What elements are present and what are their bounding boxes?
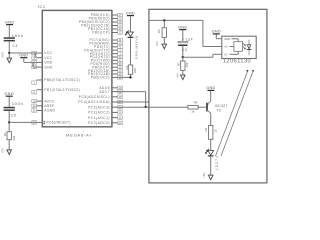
IC1 pin 30 PD0(RXD): [90, 62, 122, 66]
IC1 pin 25 PC2(ADC2): [88, 111, 122, 115]
C4 value label 100n: [12, 33, 24, 38]
receiver photodiode symbol: [243, 40, 251, 55]
junction A0 pull-up: [163, 19, 165, 21]
svg-text:R2: R2: [125, 65, 129, 69]
wire R1 to +5V: [8, 140, 10, 151]
supply VCC arrow: [0, 51, 11, 63]
R4 value label 1k: [191, 110, 195, 114]
ground flag GND (receiver): [212, 30, 221, 35]
wire C5 to reset node: [8, 111, 10, 123]
svg-text:LD274: LD274: [215, 155, 219, 170]
svg-text:VCC: VCC: [44, 51, 52, 55]
svg-text:C4: C4: [12, 44, 17, 48]
IC1 pin 29 PC6(/RESET): [32, 121, 71, 125]
junction A1 node: [182, 56, 184, 58]
svg-text:R6: R6: [157, 29, 161, 33]
svg-text:100: 100: [185, 62, 189, 67]
light beam arrow 2: [221, 70, 254, 156]
svg-text:PB3(OC2): PB3(OC2): [91, 76, 110, 80]
wire IR LED to +5V: [210, 157, 212, 176]
wire GND to green LED: [130, 16, 132, 32]
R5 designator label: [204, 127, 208, 131]
svg-text:VCC: VCC: [44, 56, 52, 60]
wire VCC node to IC1 VCC pin: [9, 52, 36, 54]
svg-text:R7: R7: [177, 62, 181, 66]
supply +5V arrow (R1): [0, 148, 11, 155]
IC1 pin 13 PB1(OC1A): [88, 27, 122, 31]
ground flag GND (IC supply pins): [19, 53, 28, 58]
wire GND to C3: [182, 30, 184, 41]
resistor R7 body: [181, 61, 185, 70]
IC1 pin 14 PB2(SS/OC1B): [81, 24, 122, 28]
IC1 pin 5 GND: [32, 65, 53, 69]
R7 designator label: [177, 62, 181, 66]
receiver value label 12061130: [223, 59, 251, 65]
IC1 pin 15 PB3(OC2): [91, 76, 123, 80]
receiver pin label A0: [224, 45, 228, 49]
svg-text:AVCC: AVCC: [44, 99, 55, 103]
R2 designator label: [125, 65, 129, 69]
IC1 pin 1 PD3(INT1): [90, 52, 123, 56]
svg-text:PC4(ADC4/SDA): PC4(ADC4/SDA): [78, 100, 110, 104]
wire junction to R6: [163, 20, 165, 27]
IC1 pin 20 AREF: [32, 104, 55, 108]
svg-text:GRN_M8EVB: GRN_M8EVB: [134, 36, 138, 59]
svg-text:PC1(ADC1): PC1(ADC1): [88, 116, 110, 120]
IC1 pin 32 PD2(INT0): [90, 55, 123, 59]
transistor T3 base bar: [206, 103, 208, 112]
svg-text:GND: GND: [206, 86, 215, 90]
svg-text:R4: R4: [194, 100, 198, 104]
IC1 pin 12 PB0(ICP): [92, 31, 122, 35]
svg-text:GND: GND: [44, 61, 53, 65]
svg-text:R5: R5: [204, 127, 208, 131]
junction ADC7-base net: [144, 106, 146, 108]
IC1 pin 23 PC0(ADC0): [88, 121, 122, 125]
resistor R2 body: [128, 65, 132, 74]
svg-text:+ 1µF: + 1µF: [182, 37, 193, 41]
ground flag GND (green LED): [126, 11, 135, 16]
svg-text:A1: A1: [224, 52, 228, 56]
T3 collector lead: [206, 109, 211, 125]
resistor R4 body: [188, 105, 198, 109]
wire GND to receiver GND pin: [216, 35, 222, 39]
wire reset node to IC1 PC6(/RESET): [9, 121, 36, 123]
svg-text:390: 390: [133, 68, 137, 73]
svg-text:PC6(/RESET): PC6(/RESET): [47, 121, 71, 125]
frame sensor-module boundary: [149, 9, 267, 183]
capacitor C4 plates: [4, 37, 15, 41]
R6 designator label: [157, 29, 161, 33]
wire R7 to +5V: [182, 70, 184, 75]
svg-text:GND: GND: [4, 92, 13, 96]
supply +5V arrow (R6): [155, 41, 167, 49]
IC1 pin 13 PB1(OC1A): [88, 69, 122, 73]
svg-text:10k: 10k: [12, 135, 16, 140]
resistor R1 body: [7, 132, 11, 140]
R1 designator label: [3, 132, 7, 136]
svg-text:GND: GND: [126, 11, 135, 15]
C3 polarity + and value 1uF: [182, 37, 193, 41]
IC1 pin 26 PC3(ADC3): [88, 105, 122, 109]
wire frame edge to A0 pull-up net: [149, 19, 203, 21]
IC1 pin 27 PC4(ADC4/SDA): [78, 100, 122, 104]
IC1 pin 12 PB0(ICP): [92, 65, 122, 69]
wire GND to T3 emitter: [210, 91, 212, 101]
IC1 pin 7 PB6(XTAL1/TOSC1): [32, 78, 80, 85]
LED LD274 (IR emitter): [205, 149, 213, 157]
IC1 pin 31 PD1(TXD): [91, 59, 123, 63]
wire jumper VCC pins: [34, 53, 36, 58]
svg-text:GND: GND: [44, 65, 53, 69]
R1 value label 10k: [12, 135, 16, 140]
wire A1 node to receiver A1: [183, 54, 222, 57]
T3 name label BC327: [215, 104, 227, 108]
IC1 pin 10 PD6(AIN0): [90, 42, 123, 46]
wire R5 to IR LED: [210, 139, 212, 150]
svg-text:+5V: +5V: [155, 41, 159, 46]
receiver internal square: [234, 42, 243, 52]
wire IC1 PC3 to R4 (transistor base net): [118, 106, 188, 108]
wire R6 to +5V: [163, 37, 165, 44]
svg-text:AREF: AREF: [44, 104, 54, 108]
C4 designator label: [12, 44, 17, 48]
wire jumper GND pins: [33, 62, 37, 67]
T3 emitter lead with PNP arrow: [206, 101, 211, 105]
wire GND flag to IC1 GND pin: [24, 58, 37, 62]
svg-text:GND: GND: [19, 53, 28, 57]
svg-text:ADC7: ADC7: [99, 90, 110, 94]
svg-text:GND: GND: [224, 37, 230, 41]
resistor R5 body: [209, 126, 213, 140]
IC1 pin 9 PD5(T1): [94, 45, 122, 49]
ground flag GND (top of C3): [178, 25, 187, 30]
IC1 pin 28 PC5(ADC5/SCL): [79, 95, 123, 99]
receiver internal connections: [230, 39, 239, 55]
svg-text:PB0(ICP): PB0(ICP): [92, 31, 110, 35]
wire green LED to R2: [130, 38, 132, 65]
wire A1 node to R7: [182, 57, 184, 61]
receiver pin label GND: [224, 37, 230, 41]
T3 designator label: [216, 108, 221, 112]
svg-text:AGND: AGND: [44, 109, 55, 113]
wire IC1 ADC7 to base net: [118, 92, 146, 107]
svg-text:PC3(ADC3): PC3(ADC3): [88, 105, 110, 109]
R7 value label 100: [185, 62, 189, 67]
svg-text:C5: C5: [11, 114, 16, 118]
svg-text:100n: 100n: [12, 101, 24, 106]
junction R2 pin net: [129, 76, 131, 78]
IC1 pin 19 ADC6: [99, 86, 122, 90]
svg-text:T3: T3: [216, 108, 221, 112]
LED name label GRN_M8EVB: [134, 36, 138, 59]
LED GRN_M8EVB (green indicator): [125, 30, 133, 38]
IC1 pin 17 PB5(SCK): [91, 13, 123, 17]
IC1 pin 16 PB4(MISO): [89, 17, 123, 21]
resistor R6 body: [162, 28, 166, 38]
wire GND to C5: [8, 97, 10, 107]
svg-text:PC2(ADC2): PC2(ADC2): [88, 111, 110, 115]
supply +5V arrow (IR LED): [202, 173, 213, 180]
supply +5V arrow (R7): [176, 73, 186, 80]
wire reset node to R1: [8, 122, 10, 131]
IC1 pin 18 AVCC: [32, 99, 55, 103]
light beam arrow 1: [216, 70, 249, 156]
ground flag GND (top of C4): [5, 20, 14, 25]
wire C3 to A1 node: [182, 46, 184, 57]
svg-text:GND: GND: [212, 30, 221, 34]
wire R4 to T3 base: [198, 106, 206, 108]
IC1 pin 4 VCC: [32, 51, 53, 55]
capacitor C5 plates: [4, 107, 15, 111]
R2 value label 390: [133, 68, 137, 73]
R5 value label 15: [214, 129, 218, 133]
wire C4 to VCC node: [8, 41, 10, 53]
svg-text:R1: R1: [3, 132, 7, 136]
C5 value label 100n: [12, 101, 24, 106]
svg-text:A0: A0: [224, 45, 228, 49]
IC1 pin 22 ADC7: [99, 90, 122, 94]
microcontroller IC1 body: [42, 10, 112, 126]
LED name label LD274: [215, 155, 219, 170]
svg-text:12061130: 12061130: [223, 59, 251, 65]
C5 designator label: [11, 114, 16, 118]
svg-text:PB6(XTAL1/TOSC1): PB6(XTAL1/TOSC1): [44, 78, 80, 82]
ground flag GND (top of C5): [4, 92, 13, 97]
IC1 pin 2 PD4(XCK/T0): [84, 48, 122, 52]
IC1 pin 21 AGND: [32, 109, 56, 113]
receiver pin label A1: [224, 52, 228, 56]
svg-text:MEGA8-AI: MEGA8-AI: [66, 132, 92, 137]
IC1 pin 24 PC1(ADC1): [88, 116, 122, 120]
svg-text:PB7(XTAL2/TOSC2): PB7(XTAL2/TOSC2): [44, 88, 80, 92]
svg-text:+5V: +5V: [176, 73, 180, 78]
IC1 pin 15 PB3(MOSI/OC2): [79, 20, 122, 24]
svg-text:15: 15: [214, 129, 218, 133]
svg-text:1k: 1k: [191, 110, 195, 114]
C3 designator label: [182, 48, 187, 52]
junction reset node: [8, 121, 10, 123]
junction VCC node: [8, 52, 10, 54]
svg-text:GND: GND: [178, 25, 187, 29]
svg-text:GND: GND: [5, 20, 14, 24]
IC1 pin 11 PD7(AIN1): [90, 38, 123, 42]
wire IC1 PC4 to frame edge: [118, 101, 150, 103]
IC1 pin 14 PB2(OC1B): [88, 72, 122, 76]
IR receiver U2 body: [222, 36, 256, 58]
ground flag GND (T3 emitter): [206, 86, 215, 91]
R4 designator label: [194, 100, 198, 104]
svg-text:VCC: VCC: [0, 51, 4, 58]
svg-text:IC1: IC1: [38, 4, 46, 9]
svg-text:+5V: +5V: [202, 173, 206, 178]
svg-text:PC0(ADC0): PC0(ADC0): [88, 121, 110, 125]
IC1 pin 6 VCC: [32, 56, 53, 60]
IC1 pin 3 GND: [32, 61, 53, 65]
wire GND to C4: [8, 25, 10, 37]
svg-text:PC5(ADC5/SCL): PC5(ADC5/SCL): [79, 95, 110, 99]
capacitor C3 plates (polarized): [178, 41, 187, 46]
IC1 pin 8 PB7(XTAL2/TOSC2): [32, 88, 80, 95]
wire A0 net down to receiver A0: [203, 20, 222, 46]
svg-text:100n: 100n: [12, 33, 24, 38]
wire R2 to IC1 pin net: [118, 74, 131, 77]
svg-text:+5V: +5V: [0, 148, 4, 153]
IC1 value label MEGA8-AI: [66, 132, 92, 137]
IC1 designator label: [38, 4, 46, 9]
